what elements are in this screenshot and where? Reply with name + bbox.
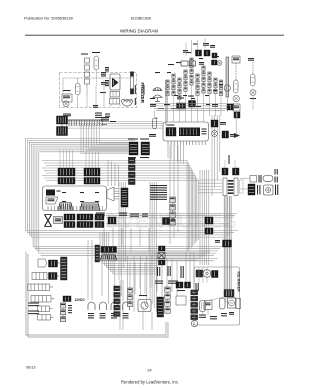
page title WIRING DIAGRAM — [120, 29, 158, 34]
top blobs — [183, 43, 217, 58]
inverter right blobs — [211, 120, 234, 138]
stack drop verticals — [130, 262, 150, 294]
connector text block — [150, 185, 167, 200]
display connector strip — [121, 188, 128, 207]
dispenser sub box — [176, 296, 186, 305]
board feed verticals — [108, 160, 119, 186]
svg-text:ICE MAKER: ICE MAKER — [236, 272, 240, 293]
board top connector J1 — [58, 168, 75, 184]
centre vertical bundle D — [200, 170, 209, 265]
long field verticals — [212, 115, 220, 196]
svg-text:EI23BC35K: EI23BC35K — [131, 16, 152, 21]
door plug row 3 — [28, 284, 54, 291]
footer date — [26, 366, 36, 370]
low-voltage connector blocks — [128, 139, 150, 159]
svg-text:12VDC: 12VDC — [75, 298, 86, 302]
label 12VDC — [63, 296, 85, 302]
bottom drop verticals — [102, 256, 147, 312]
compressor ladder — [223, 178, 243, 196]
freezer right bar — [130, 72, 136, 106]
icemaker wires — [199, 267, 238, 315]
board warning label — [46, 190, 61, 205]
inverter bottom pins — [168, 141, 205, 145]
board bottom connector J4 — [80, 203, 100, 211]
bottom connect wires — [120, 280, 152, 330]
board pins — [48, 192, 102, 211]
freezer bottom connector comb — [66, 120, 102, 126]
mid drop verticals — [88, 240, 92, 300]
door plug row 5 — [38, 306, 53, 312]
row-to-right wires — [106, 214, 237, 227]
inverter text block — [179, 128, 207, 137]
run capacitor pair — [222, 155, 239, 175]
inverter connector blocks — [166, 125, 176, 137]
blobs above inverter — [177, 96, 241, 119]
relay block row — [100, 247, 117, 261]
field left vertical pair — [165, 80, 166, 125]
defrost heater bar — [224, 57, 230, 112]
lower harness bands — [26, 231, 239, 261]
row vertical connector — [61, 257, 68, 280]
svg-text:Rendered by LeadVenture, Inc.: Rendered by LeadVenture, Inc. — [121, 380, 179, 385]
freezer internal wires — [63, 78, 134, 107]
condenser fan chain — [240, 169, 278, 183]
freezer harness staircase — [81, 124, 128, 154]
door plug row 1 — [38, 259, 60, 267]
inverter drop wires — [168, 145, 184, 164]
svg-text:06/13: 06/13 — [26, 366, 36, 370]
component row y62 — [181, 60, 222, 66]
door plug row 2 — [32, 273, 60, 280]
stack bottom marks — [155, 281, 178, 284]
evaporator fan — [122, 99, 133, 106]
dispenser chain — [165, 287, 171, 313]
svg-text:Publication No: 5995636130: Publication No: 5995636130 — [24, 16, 74, 21]
grid cross verticals — [104, 228, 149, 252]
centre vertical bundle B — [150, 182, 156, 312]
aux chains — [60, 303, 72, 322]
door switch column — [232, 56, 240, 120]
icemaker components — [196, 270, 241, 320]
thermistor RT1 — [81, 54, 90, 97]
aux comb — [157, 297, 164, 317]
board bottom connector J3 — [58, 203, 73, 211]
freezer fan motor M1 — [76, 78, 81, 95]
left vertical strip — [95, 245, 100, 262]
row extra comb — [108, 217, 116, 224]
relay and sensor chains — [166, 58, 223, 116]
door plug row 6 — [38, 315, 54, 321]
left small stack — [149, 104, 157, 137]
board top connector J2 — [84, 168, 100, 184]
header rule — [25, 34, 284, 36]
inverter board — [163, 122, 209, 141]
dispenser top blobs — [176, 282, 191, 291]
freezer labels — [100, 72, 106, 93]
compressor chain — [240, 184, 278, 195]
freezer sensor pill — [92, 52, 100, 86]
label FREEZER — [140, 83, 145, 104]
solenoid row — [88, 302, 130, 318]
footer rendered-by — [121, 380, 179, 385]
watermark — [62, 211, 237, 233]
icemaker supply cable — [224, 196, 234, 297]
connector arrow — [234, 133, 240, 138]
connector stack — [158, 246, 165, 265]
ice maker enclosure — [194, 267, 240, 325]
ground symbols — [153, 88, 162, 119]
main harness band — [42, 161, 198, 253]
side chain — [170, 197, 176, 225]
upper mid labels — [93, 105, 116, 122]
left harness nested corners — [26, 139, 136, 254]
field wires — [168, 38, 206, 122]
ladder wires — [198, 180, 222, 193]
water valve gauge — [138, 295, 151, 312]
display harness chain — [129, 158, 136, 185]
label ICE MAKER — [236, 272, 240, 293]
band y103 — [150, 104, 234, 111]
relay fan wires — [103, 260, 158, 274]
right mid chain — [163, 217, 232, 247]
cluster feed verticals — [152, 252, 194, 296]
board edge connector row — [45, 214, 105, 228]
board side connector — [107, 187, 119, 201]
stack dash pairs — [157, 266, 184, 278]
chain x117 — [114, 286, 120, 316]
field long drops — [170, 145, 178, 244]
freezer bottom labels — [63, 114, 109, 125]
aux marks left — [28, 303, 39, 315]
main control board — [43, 186, 107, 211]
defrost thermostat — [62, 90, 72, 102]
footer page number — [147, 369, 151, 373]
freezer compartment enclosure — [60, 73, 137, 108]
right chain x194 — [191, 290, 198, 327]
svg-text:24: 24 — [147, 369, 151, 373]
defrost heater assembly — [105, 67, 120, 90]
page header model number — [131, 16, 152, 21]
lamp column — [248, 58, 256, 99]
freezer-to-board wires — [68, 122, 164, 129]
chain x130 — [128, 288, 133, 307]
svg-text:WIRING DIAGRAM: WIRING DIAGRAM — [120, 29, 158, 34]
heater connector — [110, 92, 120, 105]
defrost heater lamp — [63, 101, 69, 107]
centre vertical bundle A — [119, 182, 125, 280]
right col wires — [236, 96, 253, 137]
row label texts — [96, 213, 148, 217]
board top wires — [60, 150, 98, 168]
door plug row 4 — [31, 296, 55, 303]
field labels — [150, 52, 223, 109]
lower stepped wires — [100, 232, 210, 260]
page header publication number — [24, 16, 74, 21]
bottom loop harness — [26, 252, 168, 337]
connector comb pair — [57, 116, 68, 136]
